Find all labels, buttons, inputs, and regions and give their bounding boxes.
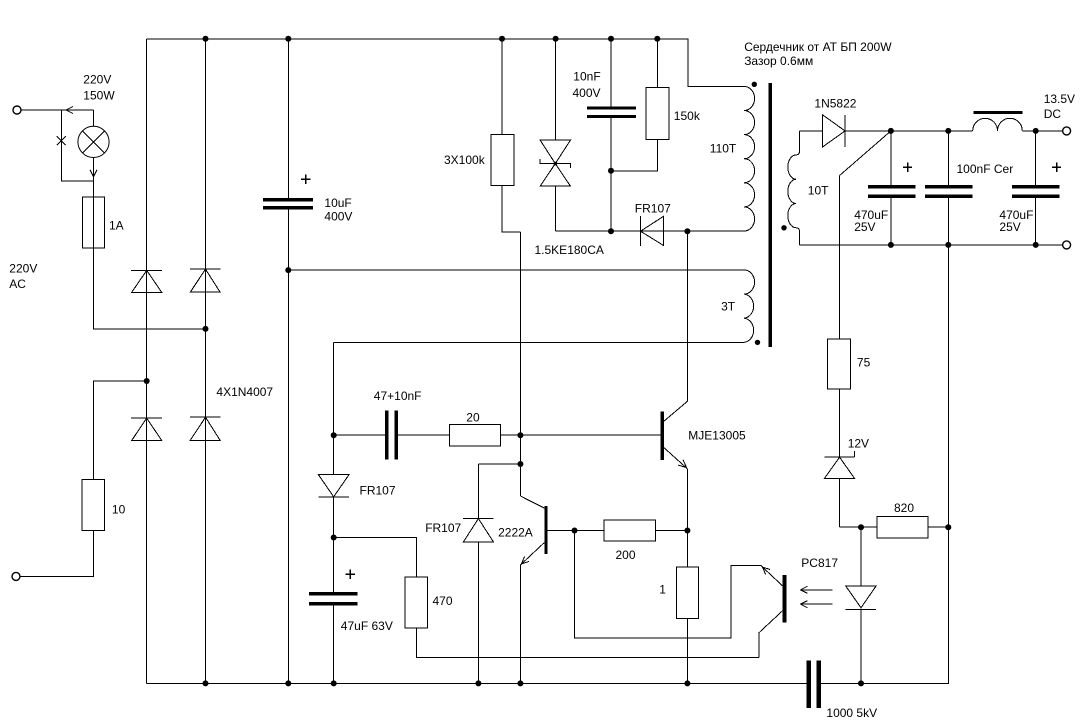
- wire PC817 emitter to resistor 470 bottom: [416, 628, 759, 658]
- capacitor 10uF 400V bulk: [263, 39, 313, 684]
- wire feedback divider down to resistor 75: [839, 176, 841, 340]
- svg-text:75: 75: [857, 356, 871, 370]
- capacitor 47+10nF base drive: [387, 411, 396, 460]
- fuse 1A: [83, 197, 105, 248]
- transformer core: [769, 83, 772, 347]
- svg-text:150W: 150W: [83, 89, 115, 103]
- capacitor 470uF 25V first: [868, 131, 915, 245]
- svg-text:Зазор 0.6мм: Зазор 0.6мм: [744, 54, 813, 68]
- wire feedback winding bottom at y342: [334, 341, 744, 343]
- svg-text:1A: 1A: [109, 219, 124, 233]
- svg-text:12V: 12V: [848, 436, 869, 450]
- wire 2222A base node down to PC817 collector: [575, 531, 761, 638]
- wire resistor 10 to bridge AC node 2: [93, 381, 146, 479]
- break mark X on shorting branch: [57, 136, 66, 145]
- svg-text:470: 470: [433, 594, 453, 608]
- svg-text:1000 5kV: 1000 5kV: [826, 706, 877, 720]
- wire zener to 820 node: [840, 526, 877, 528]
- lamp 220V 150W: [93, 110, 95, 126]
- svg-text:20: 20: [466, 410, 480, 424]
- wire bridge column 1: [146, 39, 148, 684]
- svg-text:1: 1: [659, 583, 666, 597]
- svg-text:10uF: 10uF: [324, 196, 351, 210]
- resistor 820: [877, 517, 948, 538]
- wire switch node down to MJE collector: [686, 231, 688, 401]
- diode bridge upper right 1N4007: [190, 269, 220, 292]
- svg-text:AC: AC: [9, 277, 26, 291]
- diode 1N5822: [823, 115, 845, 147]
- svg-text:FR107: FR107: [425, 521, 461, 535]
- svg-text:4X1N4007: 4X1N4007: [216, 385, 273, 399]
- wire inductor to output terminal: [1022, 130, 1062, 132]
- wire cap to resistor 20: [398, 434, 450, 436]
- resistor 150k snubber: [611, 39, 669, 171]
- resistor 200: [604, 520, 688, 541]
- svg-text:25V: 25V: [999, 220, 1020, 234]
- svg-text:10: 10: [112, 502, 126, 516]
- capacitor 1000 5kV Y-cap: [809, 661, 819, 708]
- svg-text:220V: 220V: [83, 72, 111, 86]
- capacitor 100nF Cer: [925, 131, 973, 245]
- optocoupler PC817 phototransistor: [759, 566, 784, 658]
- wire secondary ground return to 820 node: [821, 245, 948, 684]
- svg-text:3X100k: 3X100k: [444, 153, 486, 167]
- diode bridge lower left 1N4007: [131, 418, 162, 441]
- polarity dot secondary: [781, 225, 786, 230]
- svg-text:820: 820: [894, 501, 914, 515]
- diode FR107 base clamp: [318, 435, 349, 537]
- terminal AC input 1: [13, 106, 21, 114]
- svg-text:150k: 150k: [674, 109, 701, 123]
- wire base drive rail: [334, 434, 385, 436]
- capacitor 10nF 400V snubber: [587, 39, 636, 231]
- svg-text:DC: DC: [1044, 107, 1062, 121]
- svg-text:400V: 400V: [324, 210, 352, 224]
- resistor 75: [828, 339, 851, 457]
- wire emitter rail to 200: [548, 530, 604, 532]
- svg-text:MJE13005: MJE13005: [688, 428, 746, 442]
- polarity dot primary: [752, 82, 757, 87]
- zener 12V: [824, 451, 854, 527]
- resistor 10: [82, 479, 104, 530]
- wire primary bottom to switch node: [687, 230, 744, 232]
- svg-text:200: 200: [616, 548, 636, 562]
- optocoupler PC817 LED: [846, 527, 877, 683]
- svg-text:400V: 400V: [573, 86, 601, 100]
- resistor 1 emitter shunt: [676, 531, 698, 684]
- resistor 3X100k startup: [491, 39, 520, 232]
- arrow current out of lamp: [90, 170, 97, 177]
- capacitor 470uF 25V second: [1012, 131, 1061, 245]
- arrow current into lamp: [66, 107, 73, 114]
- wire shorting branch with break: [61, 110, 93, 181]
- diode FR107 speedup: [463, 464, 520, 683]
- svg-text:220V: 220V: [9, 262, 37, 276]
- transistor MJE13005: [662, 401, 687, 530]
- wire diagonal to feedback divider: [840, 131, 891, 176]
- transistor 2222A: [520, 496, 546, 683]
- polarity dot feedback: [755, 340, 760, 345]
- terminal DC output plus: [1063, 127, 1071, 135]
- resistor 470: [334, 538, 428, 629]
- wire fuse to bridge AC node 1: [94, 248, 206, 329]
- inductor output filter: [973, 113, 1023, 131]
- terminal AC input 2: [12, 572, 20, 580]
- svg-text:1.5KE180CA: 1.5KE180CA: [535, 243, 604, 257]
- svg-text:47+10nF: 47+10nF: [374, 389, 422, 403]
- svg-text:25V: 25V: [854, 220, 875, 234]
- terminal DC output minus: [1063, 241, 1071, 249]
- transformer feedback winding 3T: [744, 270, 755, 342]
- TVS 1.5KE180CA: [540, 39, 570, 231]
- svg-text:13.5V: 13.5V: [1044, 92, 1075, 106]
- svg-text:1N5822: 1N5822: [814, 96, 856, 110]
- svg-text:PC817: PC817: [801, 556, 838, 570]
- wire feedback winding bottom down to base network: [333, 342, 335, 435]
- svg-text:FR107: FR107: [635, 201, 671, 215]
- transformer secondary winding 10T: [788, 131, 800, 245]
- svg-text:10nF: 10nF: [573, 70, 600, 84]
- transformer primary winding 110T: [744, 86, 755, 231]
- diode bridge upper left 1N4007: [131, 270, 162, 292]
- svg-text:100nF Cer: 100nF Cer: [957, 162, 1014, 176]
- svg-text:2222A: 2222A: [498, 525, 533, 539]
- wire secondary ground rail: [800, 244, 1063, 246]
- svg-text:FR107: FR107: [360, 484, 396, 498]
- capacitor 47uF 63V: [309, 538, 358, 684]
- svg-text:110T: 110T: [710, 141, 737, 155]
- wire bridge column 2: [205, 39, 207, 684]
- wire AC2 to resistor 10: [20, 530, 93, 576]
- wire secondary winding top to diode: [800, 130, 823, 132]
- svg-text:Сердечник от АТ БП 200W: Сердечник от АТ БП 200W: [744, 40, 892, 54]
- wire startup line down to 2222A collector: [519, 232, 521, 496]
- svg-text:10T: 10T: [808, 183, 829, 197]
- wire top HV bus: [147, 39, 744, 87]
- wire bottom primary ground bus: [147, 682, 807, 684]
- resistor 20: [450, 425, 661, 446]
- wire 13.5V output rail: [845, 130, 973, 132]
- svg-text:47uF 63V: 47uF 63V: [341, 619, 393, 633]
- wire rectified plus bus at y270 to feedback winding top: [288, 269, 744, 271]
- diode bridge lower right 1N4007: [190, 417, 220, 440]
- light arrows PC817: [800, 586, 832, 593]
- diode FR107 snubber: [556, 216, 688, 246]
- wire AC1 top: [21, 109, 94, 111]
- svg-text:3T: 3T: [721, 299, 736, 313]
